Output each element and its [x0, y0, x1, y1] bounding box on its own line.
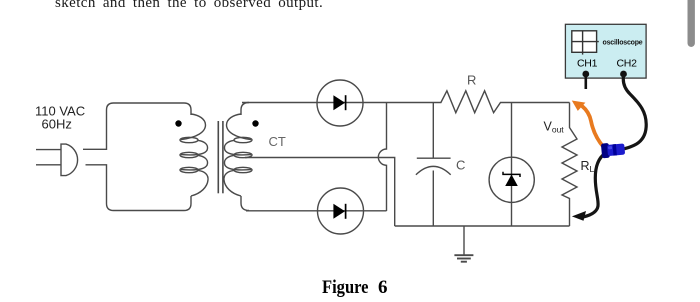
- svg-text:Figure: Figure: [322, 277, 369, 298]
- svg-text:CH2: CH2: [617, 57, 638, 69]
- svg-text:CT: CT: [269, 134, 286, 149]
- svg-text:RL: RL: [581, 159, 595, 174]
- svg-text:R: R: [467, 73, 476, 88]
- svg-text:sketch and then the to observe: sketch and then the to observed output.: [55, 0, 323, 11]
- svg-text:Vout: Vout: [544, 120, 565, 135]
- svg-text:C: C: [456, 158, 465, 173]
- svg-text:6: 6: [378, 277, 388, 298]
- svg-text:CH1: CH1: [577, 57, 598, 69]
- svg-text:60Hz: 60Hz: [42, 116, 72, 131]
- svg-text:oscilloscope: oscilloscope: [603, 39, 643, 46]
